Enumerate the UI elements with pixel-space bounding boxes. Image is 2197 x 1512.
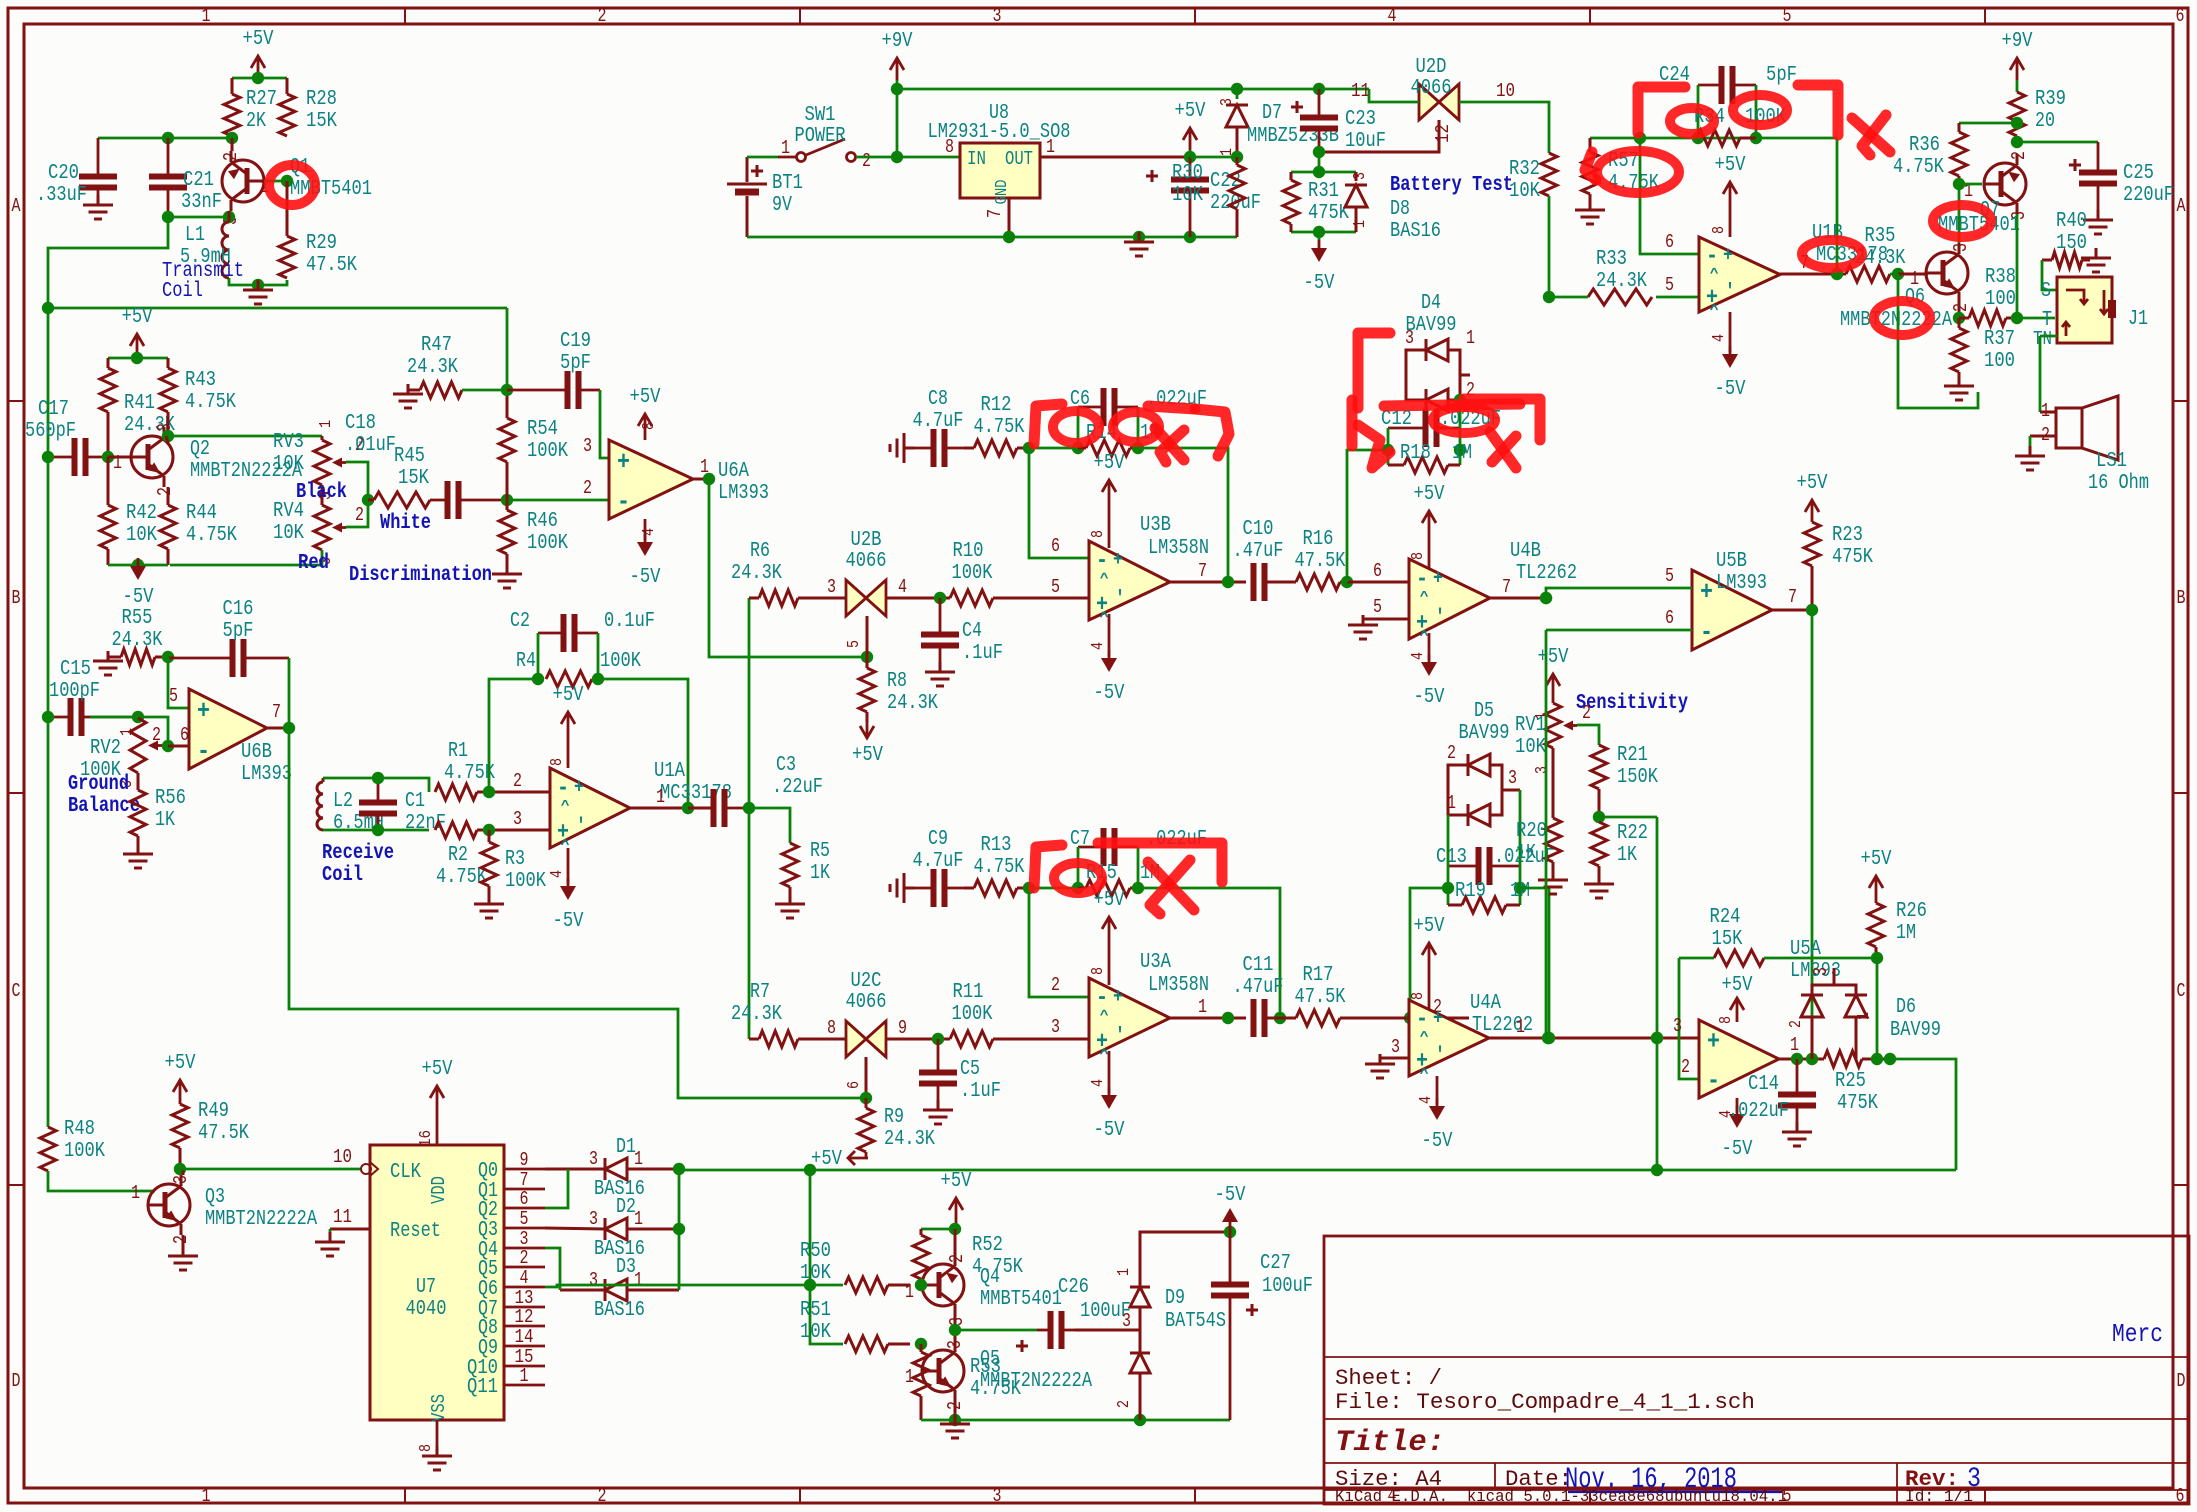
label U1A bbox=[654, 760, 732, 805]
svg-text:4.7uF: 4.7uF bbox=[913, 850, 964, 873]
svg-text:Balance: Balance bbox=[68, 795, 140, 818]
capacitor C16 bbox=[168, 598, 289, 677]
wire C19 to U6A pin3 bbox=[583, 390, 609, 458]
svg-text:BAS16: BAS16 bbox=[1390, 220, 1441, 243]
svg-text:R25: R25 bbox=[1835, 1070, 1866, 1093]
resistor R9 bbox=[858, 1098, 935, 1152]
resistor R5 bbox=[782, 840, 830, 900]
svg-text:+5V: +5V bbox=[852, 744, 883, 767]
label Q5 bbox=[980, 1348, 1092, 1393]
jack J1 bbox=[2033, 277, 2148, 350]
svg-text:C3: C3 bbox=[776, 754, 796, 777]
wire R39 node bbox=[1959, 117, 2098, 148]
svg-text:R27: R27 bbox=[246, 88, 277, 111]
svg-text:R54: R54 bbox=[527, 418, 558, 441]
svg-text:Id: 1/1: Id: 1/1 bbox=[1905, 1488, 1973, 1507]
svg-text:L1: L1 bbox=[185, 224, 205, 247]
svg-text:MMBT2N2222A: MMBT2N2222A bbox=[205, 1208, 317, 1231]
svg-text:5: 5 bbox=[520, 1208, 529, 1230]
wire R32 down bbox=[1543, 196, 1555, 303]
wire +5V to R27/R28 bbox=[232, 72, 287, 84]
ground R40 bbox=[2081, 248, 2111, 272]
wire U4A pin3 bbox=[1380, 1036, 1409, 1058]
svg-text:C2: C2 bbox=[510, 610, 530, 633]
svg-text:2: 2 bbox=[598, 5, 607, 27]
label U3B bbox=[1140, 514, 1209, 560]
transistor Q7 bbox=[1964, 151, 2030, 220]
svg-text:C8: C8 bbox=[928, 388, 948, 411]
svg-text:C4: C4 bbox=[962, 620, 982, 643]
red oval Q6 N22 bbox=[1874, 301, 1930, 335]
svg-text:Q2: Q2 bbox=[190, 438, 210, 461]
svg-text:BAT54S: BAT54S bbox=[1165, 1310, 1226, 1333]
label Red bbox=[298, 552, 329, 575]
svg-text:15K: 15K bbox=[398, 467, 429, 490]
svg-text:MMBT5401: MMBT5401 bbox=[980, 1288, 1062, 1311]
svg-text:R23: R23 bbox=[1832, 524, 1863, 547]
svg-text:+: + bbox=[1433, 567, 1443, 590]
svg-text:B: B bbox=[2177, 587, 2186, 609]
svg-text:3: 3 bbox=[1673, 1015, 1682, 1037]
resistor R38 bbox=[1959, 266, 2017, 326]
svg-text:10K: 10K bbox=[1509, 180, 1540, 203]
wire U3B out bbox=[1170, 560, 1246, 588]
svg-text:9: 9 bbox=[898, 1017, 907, 1039]
wire U8 out bbox=[1040, 156, 1190, 159]
diode D5 dual bbox=[1447, 700, 1520, 826]
svg-text:R3: R3 bbox=[505, 848, 525, 871]
svg-text:R19: R19 bbox=[1455, 880, 1486, 903]
resistor R51 bbox=[800, 1299, 910, 1352]
svg-text:-5V: -5V bbox=[1094, 682, 1125, 705]
svg-text:R2: R2 bbox=[448, 844, 468, 867]
resistor R21 bbox=[1591, 744, 1658, 789]
svg-text:8: 8 bbox=[1710, 226, 1729, 234]
pot RV4 bbox=[273, 485, 364, 565]
svg-text:>: > bbox=[1097, 572, 1114, 579]
op-amp U3B bbox=[1089, 541, 1170, 620]
svg-text:5: 5 bbox=[169, 685, 178, 707]
svg-text:100K: 100K bbox=[527, 532, 568, 555]
svg-text:C5: C5 bbox=[960, 1058, 980, 1081]
svg-text:100K: 100K bbox=[64, 1140, 105, 1163]
svg-text:3: 3 bbox=[1051, 1016, 1060, 1038]
svg-text:R26: R26 bbox=[1896, 900, 1927, 923]
wire C7 node left bbox=[1023, 882, 1084, 894]
red X C7 bbox=[1148, 860, 1194, 914]
svg-text:8: 8 bbox=[827, 1017, 836, 1039]
svg-text:3: 3 bbox=[1508, 767, 1517, 789]
svg-text:D1: D1 bbox=[616, 1136, 636, 1159]
svg-text:R24: R24 bbox=[1710, 906, 1741, 929]
svg-text:6: 6 bbox=[1665, 607, 1674, 629]
svg-text:4066: 4066 bbox=[846, 550, 887, 573]
wire D7 node bbox=[1190, 151, 1243, 163]
svg-text:R47: R47 bbox=[421, 334, 452, 357]
wire R35 to Q6 base bbox=[1898, 273, 1928, 276]
svg-text:6: 6 bbox=[1051, 535, 1060, 557]
diode D6 dual bbox=[1787, 967, 1941, 1059]
wire U4A pin2 node bbox=[1347, 996, 1469, 1024]
wire Q4 Q5 mid bbox=[949, 1315, 1037, 1341]
wire U7 Q6 to R50 bbox=[545, 1285, 843, 1287]
svg-text:R52: R52 bbox=[972, 1234, 1003, 1257]
svg-text:+5V: +5V bbox=[1715, 154, 1746, 177]
svg-text:1M: 1M bbox=[1896, 922, 1916, 945]
svg-text:7: 7 bbox=[1502, 576, 1511, 598]
capacitor C4 bbox=[921, 598, 1003, 668]
pot RV2 bbox=[80, 718, 162, 788]
svg-text:+5V: +5V bbox=[1414, 915, 1445, 938]
power -5V D9 bbox=[1215, 1184, 1246, 1232]
wire Q3 emitter bbox=[182, 1235, 185, 1252]
svg-text:4: 4 bbox=[898, 576, 907, 598]
svg-text:R38: R38 bbox=[1985, 266, 2016, 289]
svg-text:-: - bbox=[1096, 548, 1108, 575]
resistor R52 bbox=[913, 1229, 1023, 1285]
wire U6B pin6 bbox=[168, 724, 189, 746]
resistor R32 bbox=[1509, 153, 1557, 203]
svg-text:24.3K: 24.3K bbox=[407, 356, 458, 379]
svg-text:LM358N: LM358N bbox=[1148, 974, 1209, 997]
svg-text:1K: 1K bbox=[1617, 844, 1637, 867]
svg-text:Receive: Receive bbox=[322, 842, 394, 865]
ground C25 bbox=[2083, 210, 2113, 234]
svg-text:.01uF: .01uF bbox=[345, 434, 396, 457]
svg-text:3: 3 bbox=[1122, 1310, 1131, 1332]
capacitor C14 bbox=[1728, 1059, 1816, 1128]
svg-text:Battery Test: Battery Test bbox=[1390, 174, 1513, 197]
ground LS1 bbox=[2015, 446, 2045, 470]
wire left rail vertical bbox=[47, 308, 50, 1127]
resistor R24 bbox=[1679, 906, 1877, 966]
power +5V oscillator bbox=[243, 28, 274, 78]
svg-text:3: 3 bbox=[993, 5, 1002, 27]
svg-text:-: - bbox=[557, 775, 569, 802]
resistor R8 bbox=[859, 657, 938, 722]
svg-text:R46: R46 bbox=[527, 510, 558, 533]
svg-text:100K: 100K bbox=[600, 650, 641, 673]
power +5V U8 out bbox=[1175, 100, 1206, 163]
svg-text:5: 5 bbox=[1665, 274, 1674, 296]
wire Q2 collector to RV3 bbox=[168, 435, 322, 438]
svg-text:150K: 150K bbox=[1617, 766, 1658, 789]
svg-text:U2B: U2B bbox=[851, 529, 882, 552]
svg-text:1: 1 bbox=[905, 1281, 914, 1303]
svg-text:1M: 1M bbox=[1510, 880, 1530, 903]
junction C17 bbox=[42, 451, 114, 463]
wire U7 reset bbox=[330, 1229, 370, 1238]
wire TX ref to U6A bbox=[506, 308, 509, 390]
diode D2 bbox=[545, 1196, 679, 1261]
ground U4B pin5 bbox=[1348, 615, 1378, 639]
svg-text:3: 3 bbox=[1950, 243, 1972, 252]
svg-text:-5V: -5V bbox=[1715, 378, 1746, 401]
wire Q4 collector node bbox=[921, 1223, 961, 1255]
svg-text:1: 1 bbox=[634, 1269, 643, 1291]
svg-text:.33uF: .33uF bbox=[36, 184, 87, 207]
capacitor C17 bbox=[25, 398, 108, 476]
transistor Q5 bbox=[905, 1340, 966, 1410]
svg-text:R10: R10 bbox=[953, 540, 984, 563]
wire U4A out bbox=[1489, 1016, 1699, 1044]
wire R21 R22 node bbox=[1593, 789, 1657, 823]
svg-text:C16: C16 bbox=[223, 598, 254, 621]
svg-text:R30: R30 bbox=[1172, 162, 1203, 185]
svg-text:U2D: U2D bbox=[1416, 56, 1447, 79]
wire D4 to C12 block bbox=[1454, 394, 1466, 428]
resistor R43 bbox=[160, 358, 236, 436]
svg-text:2K: 2K bbox=[246, 110, 266, 133]
svg-text:BAV99: BAV99 bbox=[1890, 1019, 1941, 1042]
svg-text:2: 2 bbox=[220, 152, 242, 161]
svg-text:+5V: +5V bbox=[1538, 646, 1569, 669]
svg-text:10: 10 bbox=[333, 1146, 352, 1168]
svg-text:R28: R28 bbox=[306, 88, 337, 111]
svg-text:4: 4 bbox=[640, 528, 659, 536]
svg-text:+: + bbox=[617, 447, 630, 477]
pot RV3 bbox=[273, 420, 364, 500]
svg-text:R21: R21 bbox=[1617, 744, 1648, 767]
power -5V U1B bbox=[1710, 312, 1746, 401]
wire U5A pin3 bbox=[1673, 1015, 1682, 1037]
ground R3 bbox=[474, 894, 504, 918]
svg-text:8: 8 bbox=[1409, 992, 1428, 1000]
svg-text:R4: R4 bbox=[516, 650, 536, 673]
power -5V U1A bbox=[548, 848, 584, 933]
label Black bbox=[296, 481, 347, 504]
capacitor C19 bbox=[507, 330, 600, 409]
svg-text:2: 2 bbox=[513, 770, 522, 792]
wire U4B out bbox=[1490, 576, 1552, 604]
svg-text:+: + bbox=[1113, 986, 1123, 1009]
op-amp U1B bbox=[1699, 222, 1888, 312]
svg-text:1: 1 bbox=[634, 1208, 643, 1230]
wire Q1 emitter bbox=[228, 211, 231, 222]
resistor R57 bbox=[1582, 138, 1659, 206]
svg-text:5: 5 bbox=[1373, 596, 1382, 618]
svg-text:6: 6 bbox=[2176, 5, 2185, 27]
svg-text:R50: R50 bbox=[800, 1240, 831, 1263]
svg-text:.47uF: .47uF bbox=[1233, 540, 1284, 563]
svg-text:U3A: U3A bbox=[1140, 951, 1171, 974]
label Q6 bbox=[1840, 286, 1952, 332]
capacitor C6 bbox=[1070, 388, 1207, 448]
svg-text:Red: Red bbox=[298, 552, 329, 575]
zener D7 bbox=[1218, 89, 1339, 157]
svg-text:File: Tesoro_Compadre_4_1_1.sc: File: Tesoro_Compadre_4_1_1.sch bbox=[1335, 1390, 1755, 1415]
svg-text:+5V: +5V bbox=[122, 306, 153, 329]
wire RV3 wiper bbox=[346, 462, 368, 500]
svg-text:BT1: BT1 bbox=[772, 172, 803, 195]
capacitor C15 bbox=[48, 658, 138, 736]
power -5V U4A bbox=[1417, 1076, 1453, 1153]
svg-text:100uF: 100uF bbox=[1262, 1275, 1313, 1298]
svg-text:C17: C17 bbox=[38, 398, 69, 421]
wire D9 top bbox=[1140, 1226, 1236, 1287]
power +5V RV1 bbox=[1533, 646, 1569, 720]
svg-text:16 Ohm: 16 Ohm bbox=[2088, 472, 2149, 495]
capacitor C1 bbox=[359, 778, 446, 835]
red oval R57 value bbox=[1585, 151, 1679, 193]
switch U2D 4066 bbox=[1351, 56, 1515, 143]
svg-text:4066: 4066 bbox=[846, 991, 887, 1014]
svg-text:9V: 9V bbox=[772, 194, 792, 217]
svg-text:2: 2 bbox=[946, 1254, 968, 1263]
svg-text:1K: 1K bbox=[810, 862, 830, 885]
junction C15 bbox=[42, 711, 54, 723]
power -5V U3B bbox=[1089, 614, 1125, 705]
power +5V U1A bbox=[548, 684, 584, 768]
red oval R15 bbox=[1054, 863, 1102, 893]
svg-text:>: > bbox=[558, 799, 575, 806]
wire osc to RX path bbox=[48, 217, 168, 308]
svg-text:2: 2 bbox=[1787, 1020, 1806, 1028]
wire R25 out right bbox=[1890, 1059, 1956, 1170]
svg-text:+: + bbox=[574, 776, 584, 799]
power -5V U4B bbox=[1409, 633, 1445, 709]
svg-text:2: 2 bbox=[2008, 151, 2030, 160]
svg-text:R48: R48 bbox=[64, 1118, 95, 1141]
svg-text:Reset: Reset bbox=[390, 1220, 441, 1243]
svg-text:3: 3 bbox=[589, 1148, 598, 1170]
svg-text:2: 2 bbox=[520, 1247, 529, 1269]
svg-text:4.75K: 4.75K bbox=[1893, 156, 1944, 179]
wire U6B pin5 feed bbox=[168, 657, 189, 708]
wire C6 node left bbox=[1023, 442, 1084, 454]
wire SW1 to U8 bbox=[856, 151, 960, 163]
switch U2C 4066 bbox=[827, 970, 907, 1089]
svg-text:1: 1 bbox=[131, 1182, 140, 1204]
resistor R20 bbox=[1516, 818, 1561, 876]
resistor R48 bbox=[40, 1118, 155, 1191]
svg-text:6: 6 bbox=[520, 1188, 529, 1210]
wire C16 down to out bbox=[288, 658, 291, 728]
svg-text:R37: R37 bbox=[1984, 328, 2015, 351]
label Discrimination bbox=[349, 564, 492, 587]
wire RV1 bottom bbox=[1552, 748, 1555, 818]
svg-text:3: 3 bbox=[513, 808, 522, 830]
ground R37 bbox=[1944, 376, 1974, 400]
wire pin6 feed bbox=[1640, 138, 1699, 254]
svg-text:5: 5 bbox=[1051, 576, 1060, 598]
svg-text:R7: R7 bbox=[750, 981, 770, 1004]
wire C26 to D9 bbox=[1075, 1310, 1140, 1332]
resistor R46 bbox=[499, 500, 568, 570]
resistor R6 bbox=[731, 540, 846, 606]
wire LS1 pin2 bbox=[2030, 436, 2056, 452]
wire C15 to RV2 bbox=[90, 711, 168, 746]
wire R27-C21 node bbox=[162, 132, 238, 144]
capacitor C2 bbox=[510, 610, 655, 679]
inductor L2 bbox=[317, 778, 384, 835]
ground R22 bbox=[1584, 874, 1614, 898]
svg-text:+5V: +5V bbox=[1797, 472, 1828, 495]
svg-text:5: 5 bbox=[1665, 565, 1674, 587]
svg-text:5pF: 5pF bbox=[223, 620, 254, 643]
svg-text:3: 3 bbox=[589, 1269, 598, 1291]
svg-text:6: 6 bbox=[845, 1081, 864, 1089]
resistor R34 bbox=[1694, 106, 1786, 146]
svg-text:+5V: +5V bbox=[165, 1052, 196, 1075]
svg-text:2: 2 bbox=[1447, 742, 1456, 764]
svg-text:LS1: LS1 bbox=[2096, 450, 2127, 473]
wire left rail horizontal bbox=[48, 307, 507, 310]
capacitor C7 bbox=[1070, 828, 1207, 888]
svg-text:+: + bbox=[1433, 1007, 1443, 1030]
red oval R54 bbox=[1670, 108, 1714, 134]
label Q2 bbox=[190, 438, 302, 483]
svg-text:Ground: Ground bbox=[68, 773, 129, 796]
svg-text:': ' bbox=[576, 816, 586, 839]
capacitor C22 bbox=[1146, 157, 1261, 237]
svg-text:D7: D7 bbox=[1262, 102, 1282, 125]
wire R40 to jack S bbox=[2042, 260, 2057, 290]
svg-text:Sheet: /: Sheet: / bbox=[1335, 1366, 1442, 1391]
svg-text:R6: R6 bbox=[750, 540, 770, 563]
diode D3 bbox=[560, 1256, 679, 1322]
power +9V supply bbox=[882, 30, 913, 80]
wire audio to R51 bbox=[804, 1170, 843, 1344]
svg-text:8: 8 bbox=[1089, 530, 1108, 538]
svg-text:R29: R29 bbox=[306, 232, 337, 255]
switch SW1 bbox=[781, 104, 871, 172]
resistor R3 bbox=[481, 830, 546, 900]
svg-text:4.75K: 4.75K bbox=[185, 391, 236, 414]
svg-text:R41: R41 bbox=[124, 392, 155, 415]
resistor R7 bbox=[731, 981, 846, 1047]
svg-text:7: 7 bbox=[1788, 586, 1797, 608]
wire U5A out bbox=[1779, 1034, 1824, 1065]
svg-text:LM393: LM393 bbox=[241, 763, 292, 786]
label U6B bbox=[241, 741, 292, 786]
svg-text:4: 4 bbox=[1089, 642, 1108, 650]
resistor R33 bbox=[1549, 248, 1652, 305]
power +5V Q2 bbox=[122, 306, 153, 358]
junction left rail bbox=[42, 302, 54, 314]
op-amp U4B bbox=[1409, 559, 1490, 639]
ground R57 bbox=[1575, 200, 1605, 224]
resistor R23 bbox=[1804, 522, 1873, 610]
red mark C12 left bbox=[1352, 400, 1390, 468]
svg-text:24.3K: 24.3K bbox=[1596, 270, 1647, 293]
red mark C24 left bracket bbox=[1638, 87, 1685, 133]
svg-text:C19: C19 bbox=[560, 330, 591, 353]
svg-text:+5V: +5V bbox=[811, 1148, 842, 1171]
svg-text:-: - bbox=[1416, 1006, 1428, 1033]
svg-text:+5V: +5V bbox=[553, 684, 584, 707]
wire U7 VSS bbox=[417, 1420, 437, 1452]
svg-text:1: 1 bbox=[1516, 1016, 1525, 1038]
title block bbox=[1324, 1236, 2189, 1507]
wire +9V rail bbox=[891, 80, 1369, 157]
resistor R1 bbox=[435, 740, 495, 800]
capacitor C5 bbox=[919, 1039, 1001, 1106]
svg-text:+5V: +5V bbox=[422, 1058, 453, 1081]
diode D1 bbox=[545, 1136, 679, 1201]
svg-text:2: 2 bbox=[154, 487, 176, 496]
svg-text:2: 2 bbox=[598, 1485, 607, 1507]
wire U2C out bbox=[886, 1033, 950, 1045]
red X C6 bbox=[1155, 428, 1184, 462]
op-amp U4A bbox=[1409, 1000, 1489, 1076]
svg-text:3: 3 bbox=[944, 1340, 966, 1349]
junction Q4 base bbox=[915, 1279, 927, 1291]
svg-text:1: 1 bbox=[1198, 996, 1207, 1018]
wire diode common bbox=[673, 1163, 685, 1290]
svg-text:D3: D3 bbox=[616, 1256, 636, 1279]
label U3A bbox=[1140, 951, 1209, 997]
